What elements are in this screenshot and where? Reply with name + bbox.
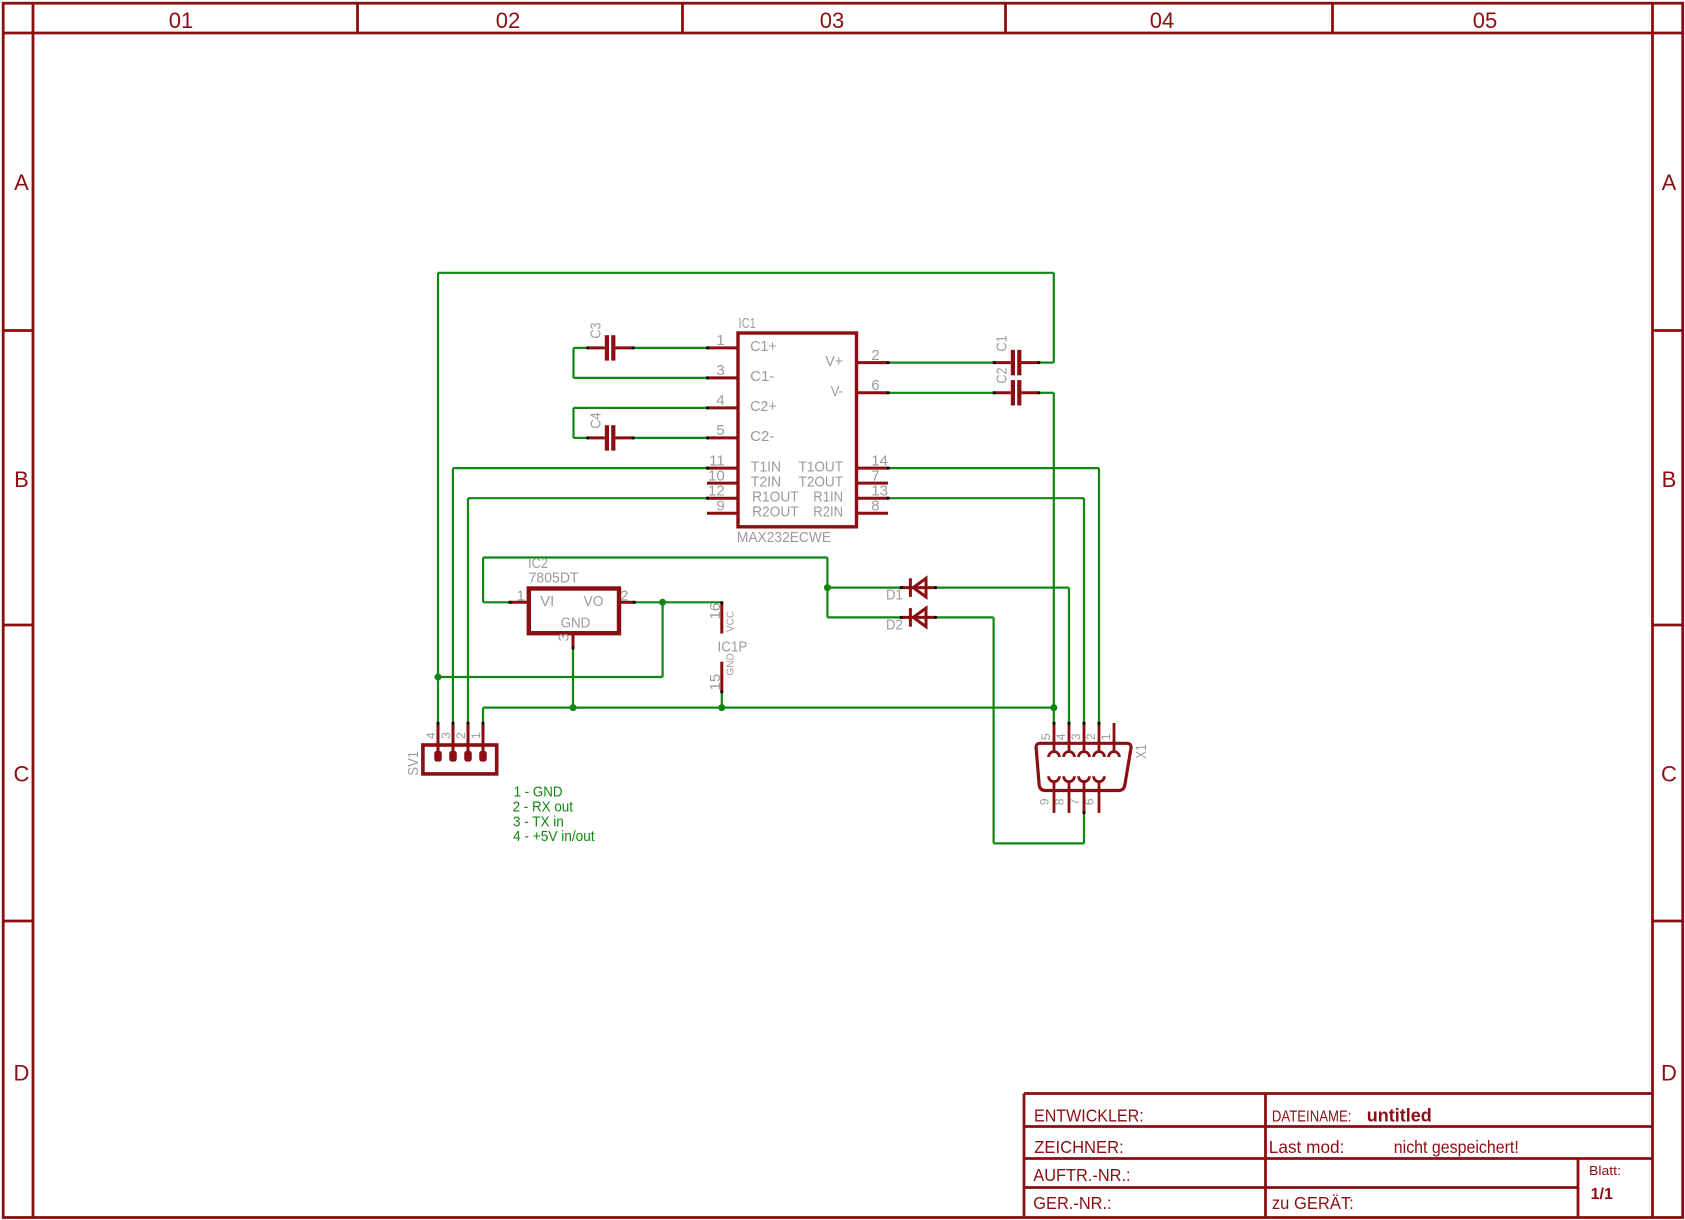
X1 pin 8 stub and contact [1064,776,1075,813]
svg-text:V+: V+ [825,354,843,370]
svg-text:B: B [1662,467,1677,492]
IC1 pin 4 stub [707,406,738,409]
svg-text:untitled: untitled [1367,1105,1432,1125]
svg-text:1: 1 [517,588,525,605]
junction +5V at VO column [435,674,442,681]
wire net RX R1OUT horizontal [468,497,707,499]
wire net GND vertical C2 to X1 pin5 [1053,393,1055,723]
svg-text:C4: C4 [587,412,604,428]
svg-text:VO: VO [584,594,604,610]
node legend: SV1 pinout notes [513,783,596,845]
wire net D2 anode bottom horizontal [994,842,1084,844]
wire net VIN drop to D2 [826,588,828,618]
wire net TX T1IN horizontal [453,467,707,469]
wire net C4 left vertical [572,408,574,438]
junction VO wire [659,599,666,606]
svg-text:04: 04 [1150,8,1174,33]
power pin symbol IC1P GND pin 15 [720,662,723,692]
svg-text:GND: GND [726,653,737,675]
wire net RX vertical to SV1 pin2 [467,498,469,723]
SV1 pin 1 stub and pad [479,723,487,762]
svg-text:D: D [14,1061,30,1086]
svg-text:R2OUT: R2OUT [752,505,799,521]
svg-text:A: A [1662,170,1677,195]
svg-text:VI: VI [540,594,554,610]
IC1 pin 3 stub [707,376,738,379]
svg-text:ENTWICKLER:: ENTWICKLER: [1034,1105,1144,1125]
frame column labels 01-05 [169,8,1497,33]
wire net V+ IC1 pin2 to C1 [888,362,994,364]
power pin symbol IC1P VCC pin 16 [720,602,723,633]
IC1 right pin labels [799,354,843,521]
svg-text:Blatt:: Blatt: [1589,1164,1621,1178]
svg-text:2: 2 [871,347,879,364]
wire net C3 left vertical [572,348,574,378]
svg-text:T1OUT: T1OUT [799,459,843,475]
svg-text:1: 1 [716,332,724,349]
svg-text:D2: D2 [886,618,903,634]
wire net +5V right vertical to C1 [1053,273,1055,363]
wire net C4 left link [574,437,588,439]
IC1 pin 6 stub [857,391,889,394]
svg-text:T2IN: T2IN [751,474,781,490]
IC1 left pin labels [750,339,799,520]
IC1 pin 7 stub [857,482,889,485]
svg-text:zu GERÄT:: zu GERÄT: [1272,1193,1354,1213]
SV1 pin 2 stub and pad [464,723,472,762]
svg-text:T2OUT: T2OUT [799,474,843,490]
wire net +5V C1 right plate link [1039,362,1054,364]
svg-text:8: 8 [1053,798,1067,805]
X1 pin 3 stub and contact [1079,723,1090,757]
SV1 pin 3 stub and pad [449,723,457,762]
IC2 pin 3 GND stub [572,633,575,648]
junction GND at IC2 pin3 [570,704,577,711]
svg-text:8: 8 [871,498,879,515]
X1 pin 1 stub and contact [1109,723,1120,757]
svg-text:16: 16 [707,603,724,620]
wire net GND long horizontal [483,706,1054,708]
junction GND at X1 column [1050,704,1057,711]
svg-text:9: 9 [716,498,724,515]
wire net C1- IC1 pin3 horizontal [574,377,708,379]
svg-text:IC1P: IC1P [718,639,748,656]
IC1 pin 5 stub [707,436,738,439]
svg-text:5: 5 [716,422,724,439]
wire net C2+ IC1 pin4 horizontal [574,407,708,409]
wire net VIN to D2 cathode [827,616,901,618]
svg-text:ZEICHNER:: ZEICHNER: [1034,1137,1123,1157]
junction GND at IC1P pin15 [718,704,725,711]
svg-text:C: C [14,762,30,787]
svg-text:C1-: C1- [750,369,774,385]
IC1 pin 8 stub [857,512,889,515]
title block [1024,1094,1653,1218]
wire net V- IC1 pin6 to C2 [888,392,994,394]
wire net GND riser IC1P pin15 [721,691,723,707]
svg-text:A: A [14,170,29,195]
wire net VIN drop to diode junction [826,558,828,588]
capacitor C1 [994,350,1040,375]
X1 pin 7 stub and contact [1079,776,1090,813]
svg-text:IC1: IC1 [739,316,756,332]
wire net D1 anode horizontal [936,586,1069,588]
diode D1 [901,578,936,597]
wire net GND C2 right plate link [1039,392,1054,394]
svg-text:5: 5 [1039,733,1053,740]
wire net +5V IC2 VO to IC1P VCC [634,601,722,603]
wire net VIN IC2 VI link [483,601,510,603]
IC1 pin 13 stub [857,497,889,500]
wire net C1+ C3 to IC1 pin1 [634,347,708,349]
voltage regulator IC2 7805DT box [529,589,619,634]
IC1 pin 14 stub [857,467,889,470]
svg-text:R2IN: R2IN [813,505,843,521]
IC1 pin 2 stub [857,361,889,364]
svg-text:4 - +5V in/out: 4 - +5V in/out [513,828,595,845]
svg-text:6: 6 [871,377,879,394]
svg-text:1/1: 1/1 [1591,1186,1614,1203]
connector X1 DB9 outline [1036,743,1131,790]
svg-text:05: 05 [1473,8,1497,33]
svg-text:3: 3 [439,732,453,739]
X1 pin 6 stub and contact [1094,776,1105,813]
IC2 pin 1 VI stub [510,601,529,604]
svg-text:AUFTR.-NR.:: AUFTR.-NR.: [1033,1165,1130,1185]
svg-text:GER.-NR.:: GER.-NR.: [1033,1193,1111,1213]
wire net R1IN vertical to X1 pin3 [1083,498,1085,723]
wire net R1IN horizontal [888,497,1084,499]
title block texts [1033,1105,1621,1213]
svg-text:1: 1 [1099,733,1113,740]
svg-text:C2-: C2- [750,429,774,445]
svg-text:X1: X1 [1133,744,1150,758]
svg-text:1: 1 [469,732,483,739]
SV1 pin 4 stub and pad [434,723,442,762]
svg-text:C3: C3 [587,322,604,338]
svg-text:2: 2 [1084,733,1098,740]
svg-text:C1: C1 [993,335,1010,351]
svg-text:4: 4 [716,392,724,409]
IC1 right pin numbers [871,347,888,515]
wire net T1OUT horizontal [888,467,1099,469]
capacitor C4 [588,425,634,450]
wire net D2 anode horizontal [936,616,994,618]
wire net VIN left vertical [482,558,484,603]
svg-text:V-: V- [831,384,843,400]
svg-text:C1+: C1+ [750,339,777,355]
svg-text:15: 15 [707,674,724,691]
svg-text:VCC: VCC [726,611,737,632]
svg-text:C: C [1661,762,1677,787]
svg-text:9: 9 [1038,798,1052,805]
svg-text:3: 3 [555,633,572,641]
svg-text:MAX232ECWE: MAX232ECWE [737,530,831,546]
IC U1: IC1 MAX232ECWE box [738,333,857,527]
wire net TX vertical to SV1 pin3 [452,468,454,723]
svg-text:6: 6 [1083,798,1097,805]
IC1 pin 11 stub [707,467,738,470]
svg-text:3: 3 [1069,733,1083,740]
svg-text:3: 3 [716,362,724,379]
svg-text:4: 4 [424,732,438,739]
svg-text:02: 02 [496,8,520,33]
svg-text:C2+: C2+ [750,399,777,415]
svg-text:R1IN: R1IN [813,490,843,506]
wire net +5V vertical SV1 pin4 to top loop [437,273,439,723]
X1 pin 5 stub and contact [1049,723,1060,757]
svg-text:DATEINAME:: DATEINAME: [1272,1108,1352,1125]
svg-text:SV1: SV1 [405,751,422,776]
wire net +5V vertical VO leg [661,602,663,677]
svg-text:7805DT: 7805DT [529,571,579,587]
svg-text:IC2: IC2 [528,556,548,572]
IC1 pin 9 stub [707,512,738,515]
wire net D2 anode riser to X1 pin7 [1083,813,1085,844]
IC1 pin 12 stub [707,497,738,500]
wire net +5V top horizontal [438,272,1054,274]
wire net +5V horizontal from junction to VO leg [438,676,663,678]
svg-text:4: 4 [1054,733,1068,740]
wire net C3 left link [574,347,588,349]
wire net VIN junction to D1 cathode [827,586,901,588]
IC1 left pin numbers [708,332,725,514]
capacitor C2 [994,380,1040,405]
svg-text:nicht gespeichert!: nicht gespeichert! [1394,1137,1519,1157]
svg-text:03: 03 [820,8,844,33]
svg-text:2: 2 [620,588,628,605]
IC2 pin 2 VO stub [619,601,634,604]
IC1 pin 1 stub [707,346,738,349]
X1 pin 2 stub and contact [1094,723,1105,757]
IC1 pin 10 stub [707,482,738,485]
connector SV1 box [423,745,497,774]
frame row labels A-D [14,170,1678,1086]
svg-text:B: B [14,467,29,492]
svg-text:2: 2 [454,732,468,739]
svg-text:GND: GND [561,616,591,632]
pin connection points (dark markers) [437,346,1101,814]
junction VIN at diodes [824,584,831,591]
svg-text:01: 01 [169,8,193,33]
wire net GND riser SV1 pin1 [482,708,484,723]
diode D2 [901,608,936,627]
capacitor C3 [588,335,634,360]
svg-text:T1IN: T1IN [751,459,781,475]
wire net D2 anode vertical [992,617,994,843]
svg-text:7: 7 [1068,798,1082,805]
svg-text:R1OUT: R1OUT [752,490,799,506]
wire net VIN top horizontal [483,556,827,558]
svg-text:D1: D1 [886,588,903,604]
svg-text:D: D [1661,1061,1677,1086]
wire net GND riser IC2 pin3 [572,648,574,708]
wire net C2- C4 to IC1 pin5 [634,437,708,439]
X1 pin 9 stub and contact [1049,776,1060,813]
wire net D1 anode vertical to X1 pin4 [1068,588,1070,723]
wire net T1OUT vertical to X1 pin2 [1098,468,1100,723]
svg-text:C2: C2 [993,367,1010,383]
X1 pin 4 stub and contact [1064,723,1075,757]
svg-text:Last mod:: Last mod: [1269,1137,1345,1157]
